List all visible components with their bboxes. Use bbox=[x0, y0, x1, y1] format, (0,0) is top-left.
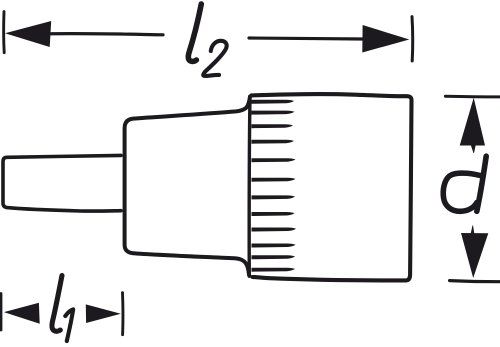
dimension l2 left dimension line bbox=[48, 34, 163, 35]
dimension l1 left arrowhead bbox=[4, 303, 40, 324]
knurl ridge 9 bbox=[252, 228, 297, 232]
knurl ridge 2 bbox=[252, 111, 295, 115]
knurl ridge 4 bbox=[252, 140, 295, 144]
dimension d bottom extension tick bbox=[450, 281, 500, 282]
label l1 subscript 1 bbox=[65, 309, 73, 341]
square drive outline bbox=[3, 155, 121, 211]
knurl ridge 3 bbox=[252, 124, 294, 128]
dimension l2 right arrowhead bbox=[362, 25, 409, 53]
dimension d top extension tick bbox=[445, 95, 499, 99]
knurl ridge 1 bbox=[252, 100, 295, 104]
dimension l2 right dimension line bbox=[249, 38, 362, 39]
knurl ridge 11 bbox=[252, 255, 296, 259]
knurl ridge 6 bbox=[252, 178, 296, 182]
socket body rectangle bbox=[252, 94, 412, 280]
knurled ring left edge bbox=[247, 97, 251, 277]
dimension l2 right extension tick bbox=[411, 17, 415, 61]
knurl ridge 7 bbox=[252, 195, 296, 199]
knurl ridge 10 bbox=[252, 244, 296, 248]
dimension d up arrowhead bbox=[460, 98, 485, 146]
label d stem bbox=[477, 156, 486, 211]
label l1 script letter l bbox=[52, 276, 62, 332]
label d bowl bbox=[443, 173, 480, 211]
dimension l2 left arrowhead bbox=[5, 21, 51, 47]
dimension d down arrowhead bbox=[461, 233, 488, 278]
dimension d down arrow tail bbox=[471, 225, 475, 233]
collar tapered body outline bbox=[125, 97, 250, 276]
label l2 subscript 2 bbox=[203, 41, 226, 76]
dimension l2 left extension tick bbox=[2, 12, 5, 53]
label l2 script letter l bbox=[188, 4, 201, 61]
dimension d up arrow tail bbox=[471, 145, 476, 154]
knurl ridge 12 bbox=[252, 268, 296, 272]
knurl ridge 5 bbox=[252, 158, 296, 162]
dimension l1 right arrowhead bbox=[86, 304, 121, 323]
knurl ridge 8 bbox=[252, 212, 295, 216]
dimension l1 right extension tick bbox=[121, 293, 124, 335]
dimension l1 left extension tick bbox=[0, 294, 2, 331]
